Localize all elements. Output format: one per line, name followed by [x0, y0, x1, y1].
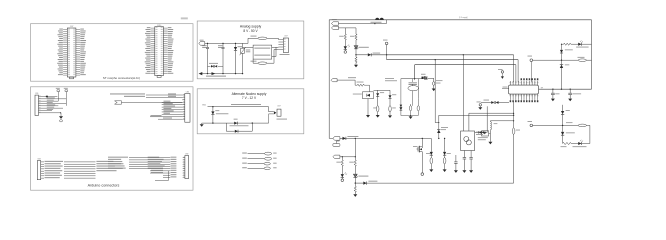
connector CN9 (arduino bottom-right) [183, 153, 189, 178]
resistor R3 [339, 28, 346, 40]
resistor R6 (sense) and ground [428, 78, 443, 91]
opto-coupler U3 input [478, 131, 491, 142]
svg-text:CN6: CN6 [186, 91, 189, 93]
diode D9 with resistor and ground [373, 90, 384, 117]
svg-text:7 V - 12 V: 7 V - 12 V [242, 96, 257, 100]
diode D15 (output rectifier) [561, 105, 570, 126]
small tag left of box [181, 17, 188, 19]
hier label flag [333, 141, 340, 146]
wire: R2 riser to CN2 [253, 50, 278, 64]
svg-text:CN?: CN? [277, 105, 280, 107]
transistor Q1 (MOSFET) [421, 74, 428, 80]
svg-text:Analog supply: Analog supply [240, 25, 262, 29]
resistor R19 [417, 79, 419, 116]
resistor R2 [251, 61, 268, 65]
resistor R20 (opto input) [355, 80, 369, 86]
connector CN5 (arduino top-left) [35, 93, 43, 115]
wire: bottom rail with diode D20 [355, 181, 513, 185]
diode D21 [437, 123, 448, 139]
wire: primary node to transformer [439, 113, 515, 131]
capacitor C1 [202, 43, 209, 73]
resistor R5 to ground [355, 55, 357, 65]
wire: right bus vertical [591, 20, 593, 89]
test point TP10 [341, 177, 344, 181]
input arrow (VIN) [115, 101, 183, 104]
diodes D12 D13 (back to back, aux) [481, 100, 509, 104]
svg-text:(5 V supply): (5 V supply) [459, 17, 468, 19]
wire: rail B [387, 59, 518, 82]
wire: to connector CN3 [269, 107, 274, 123]
svg-text:CN7: CN7 [70, 26, 73, 28]
svg-text:ST morpho connectors(st.bl.): ST morpho connectors(st.bl.) [103, 76, 140, 80]
test point TP12 with ground [477, 102, 483, 110]
TVS diodes D2 D3 (back to back) [208, 63, 224, 68]
polarized bridge arrow [206, 72, 226, 77]
wire: analog top rail [205, 43, 243, 44]
net label box (supply nets) [253, 45, 272, 59]
svg-text:GND: GND [202, 104, 207, 106]
resistor R10 (on bias bus) [512, 128, 520, 183]
capacitor C7 with ground [454, 155, 458, 173]
connector CN2 (analog out) [278, 36, 289, 55]
svg-text:CN?: CN? [284, 36, 287, 38]
diode D14 [560, 60, 570, 89]
test point TP6 [383, 40, 388, 60]
diode D18 on output wire [340, 136, 440, 140]
connector CN6 (arduino top-right) [182, 91, 190, 122]
ground (CN5) [59, 116, 63, 122]
test point TP11 [421, 152, 424, 176]
diodes D24 D25 (feedback) [475, 106, 488, 133]
wire: left bus vertical [328, 20, 330, 139]
transistor Q2 [413, 138, 422, 152]
test point TP8 [528, 56, 579, 82]
input flag VIN- [332, 26, 339, 29]
resistor R7 [578, 57, 592, 62]
wire: to resistor R1 [243, 42, 249, 44]
inductor L1 [490, 120, 514, 131]
power flag 1 (top) [56, 88, 60, 101]
svg-text:CN8: CN8 [37, 159, 40, 161]
hier label flag 2 [333, 155, 356, 158]
input flag VIN+ [332, 19, 339, 25]
ground (bottom channel) [353, 194, 357, 197]
diode D4 SMAJ (TVS) [211, 107, 228, 123]
svg-text:Alternate Nucleo supply: Alternate Nucleo supply [232, 92, 267, 96]
wire: gate network return with ground [401, 115, 418, 119]
opto-driver input flag [331, 77, 356, 82]
diodes D28 D29 (gate clamp) [400, 79, 403, 116]
wire: drop to opto U5 [462, 55, 464, 131]
ground flag (analog) [199, 72, 203, 75]
wire: CN5 rows 2-7 with net labels [43, 97, 66, 110]
box: Alternate Nucleo supply [197, 89, 304, 134]
wire: main top rail [329, 17, 591, 20]
diode D22 with resistor R14 and ground [426, 138, 433, 172]
ground (top channel) [354, 65, 358, 68]
connector CN3 (nucleo jack) [274, 105, 287, 119]
ground (opto) [366, 99, 370, 118]
wire: box to vertical [243, 47, 254, 49]
opto-coupler U5 [461, 131, 486, 151]
wire: CN5 row8 to ground [43, 112, 61, 116]
wire: CN5 row1 with polarity mark [43, 96, 57, 98]
capacitor C5 with ground [551, 89, 560, 101]
resistor R12 [349, 138, 356, 166]
ground (bias) [488, 142, 492, 145]
capacitor C8 with ground [462, 151, 466, 173]
wire: transformer aux pin [502, 87, 509, 89]
wires: CN8 rows with net labels [45, 161, 123, 178]
wire: VIN+ feed [339, 20, 387, 24]
title: Alternate Nucleo supply 7V-12V [232, 92, 267, 100]
resistor R4 [350, 28, 357, 40]
connector CN10 (ST morpho) [145, 25, 174, 78]
box: Analog supply [197, 21, 304, 79]
opto-coupler U2 [353, 78, 397, 99]
diode D23 with resistor R15 and ground [443, 138, 451, 172]
box: Arduino connectors [31, 87, 194, 190]
wire: rail A with diode D8 [356, 53, 514, 82]
wire: supply top rail [208, 104, 269, 107]
diode D10 with resistor and ground [388, 90, 396, 118]
resistor R18 [409, 104, 411, 116]
wire: analog bottom rail [201, 73, 244, 74]
ground (nucleo supply) [200, 123, 204, 127]
box: ST morpho connectors [31, 24, 194, 81]
test point TP2 [242, 157, 276, 160]
varistor RV1 [240, 43, 251, 73]
transformer T1 [509, 78, 544, 102]
LED D7 (green) [344, 40, 350, 50]
title: Analog supply 8V-50V [240, 25, 262, 33]
LED D19 (bottom channel) [341, 166, 347, 177]
test point TP4 [242, 167, 276, 170]
svg-text:CN9: CN9 [185, 153, 188, 155]
resistor R1 [251, 36, 268, 40]
resistor R8 [578, 124, 590, 143]
wire: gate feed [401, 65, 422, 79]
wire: CN9 bottom L-stub [167, 171, 169, 181]
diode D5 BAT54 [230, 119, 249, 127]
test point TP7 (primary) [498, 69, 504, 79]
connector CN7 (ST morpho) [57, 26, 86, 79]
wire: supply bottom rail [202, 122, 269, 123]
wire: CN6 row1 ALTERNATE USB SUPPLY [110, 93, 182, 95]
connector J1 (analog input) [199, 40, 205, 46]
capacitor C9 with ground [469, 151, 473, 173]
test point TP1 [242, 152, 276, 155]
wire: VIN- feed [339, 27, 357, 29]
wire: CN6 row10 DEFAULT [150, 115, 182, 117]
wire: CN6 row11 [158, 118, 182, 120]
test point TP9 [528, 121, 579, 127]
capacitor C6 with ground [568, 89, 581, 101]
svg-text:CN10: CN10 [157, 25, 161, 27]
test point TP5 [344, 50, 347, 54]
resistor R13 to ground [354, 183, 356, 194]
power flag 2 (top) [64, 88, 68, 106]
resistor R9 and LED D17 [561, 140, 590, 147]
svg-text:CN5: CN5 [35, 93, 38, 95]
wire: rail C (gate) [415, 65, 516, 82]
wire: secondary output rail [539, 89, 592, 90]
resistor R11 [336, 157, 343, 167]
shunt regulator U1 TL431 [354, 40, 369, 56]
wire: CN6 rows 4-9 stubs [162, 101, 183, 115]
wire: Q1 drain drop [435, 60, 439, 123]
test point TP3 [242, 162, 276, 165]
gate RC: capacitor C11 and resistor R17 [408, 79, 419, 106]
ferrite bead FB1 [371, 18, 384, 23]
connector CN8 (arduino bottom-left) [37, 159, 44, 180]
svg-text:8 V - 50 V: 8 V - 50 V [243, 29, 258, 33]
output flag VOUT [329, 137, 340, 141]
diode D1 (reverse protection) [234, 43, 242, 73]
diode D16 Schottky [561, 125, 575, 143]
capacitor C2 [218, 43, 225, 73]
diode D27 (zener) [560, 44, 573, 60]
wire: opto output node [374, 89, 391, 91]
svg-text:Arduino connectors: Arduino connectors [88, 184, 120, 188]
wire: CN6 row2 DEFAULT [124, 96, 182, 98]
wire: lower loop with diode D6 [226, 123, 252, 133]
wires: CN9 rows with net labels [108, 157, 176, 181]
wire: box right connections [272, 47, 279, 57]
resistor R16 and LED D26 (current led row) [561, 41, 592, 48]
wire: bias vertical bus [513, 102, 514, 128]
wire: R1 to CN2 [267, 37, 278, 39]
shunt regulator U4 TL431 [353, 166, 368, 184]
